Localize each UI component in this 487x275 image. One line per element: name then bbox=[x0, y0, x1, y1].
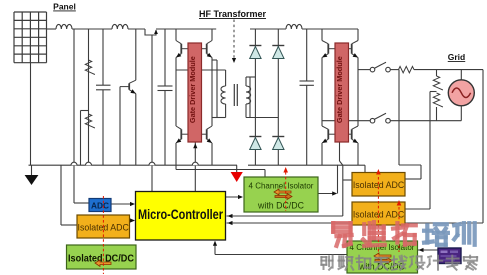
svg-text:with DC/DC: with DC/DC bbox=[257, 201, 305, 211]
svg-text:4 Channel Isolator: 4 Channel Isolator bbox=[249, 182, 314, 191]
svg-text:Panel: Panel bbox=[53, 2, 76, 12]
svg-text:HF Transformer: HF Transformer bbox=[199, 9, 267, 19]
svg-text:Micro-Controller: Micro-Controller bbox=[138, 207, 224, 222]
svg-text:ADC: ADC bbox=[91, 201, 109, 211]
svg-text:Gate Driver Module: Gate Driver Module bbox=[188, 56, 197, 123]
svg-text:Gate Driver Module: Gate Driver Module bbox=[335, 56, 344, 123]
svg-text:Grid: Grid bbox=[448, 52, 465, 62]
